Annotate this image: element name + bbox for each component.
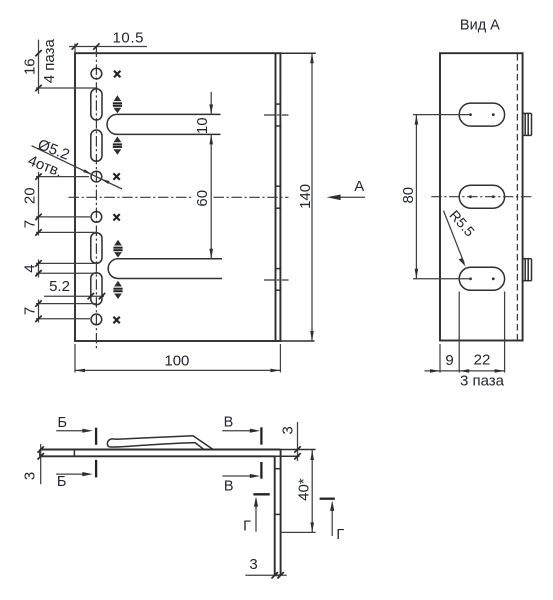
svg-text:Г: Г: [243, 519, 251, 535]
section G-G left mark: [243, 494, 270, 534]
leader R5.5: [444, 207, 479, 267]
centerline middle: [69, 196, 192, 198]
flange slot cut marks row2: [275, 186, 282, 208]
spring symbol above slot A: [113, 95, 122, 113]
side view outline: [440, 53, 523, 340]
svg-text:40*: 40*: [295, 478, 312, 501]
dims 9 and 22 with 3 slots label: [425, 292, 505, 390]
row2 arc centers: [469, 195, 472, 198]
svg-text:80: 80: [400, 187, 417, 204]
dim 3 left (plate thickness): [21, 444, 44, 484]
svg-text:60: 60: [194, 190, 211, 207]
svg-text:Б: Б: [57, 474, 67, 490]
svg-text:А: А: [354, 178, 364, 195]
bottom view plate strip: [40, 450, 281, 457]
svg-text:9: 9: [445, 352, 453, 369]
side slot row1: [459, 103, 504, 126]
row1 arc centers: [469, 113, 472, 116]
side view hidden bend line: [516, 54, 518, 340]
spring symbol below slot A: [113, 137, 122, 155]
dim 100: [75, 344, 280, 372]
section B-B bottom mark: [56, 460, 96, 490]
spring tab profile: [107, 436, 213, 450]
spring symbol below slot B: [113, 281, 122, 299]
flange slot cut marks row1: [275, 104, 282, 126]
row3 arc centers: [469, 277, 472, 280]
svg-text:3: 3: [249, 556, 257, 573]
slot capsule 4: [91, 273, 102, 305]
svg-text:3: 3: [21, 472, 38, 480]
svg-text:5.2: 5.2: [49, 278, 70, 295]
svg-text:Г: Г: [336, 527, 344, 543]
svg-text:22: 22: [474, 351, 491, 368]
wide slot B: [108, 259, 222, 279]
slot capsule 1: [91, 89, 102, 120]
svg-text:В: В: [224, 415, 234, 431]
leg slot rung 2: [275, 513, 281, 515]
section B-B top mark: [56, 415, 96, 445]
svg-text:В: В: [224, 478, 234, 494]
hole 2: [91, 171, 102, 182]
section V-V bottom mark: [222, 462, 261, 494]
svg-text:Б: Б: [57, 415, 67, 431]
svg-text:3: 3: [279, 426, 296, 434]
dim 60: [194, 134, 213, 258]
section G-G right mark: [320, 499, 345, 543]
wide slot A: [107, 114, 220, 134]
hole 4: [91, 314, 102, 325]
leader dia 5.2 4 holes: [26, 136, 122, 189]
svg-text:16: 16: [22, 58, 39, 75]
svg-text:10: 10: [194, 117, 211, 134]
dim 10.5: [69, 30, 147, 54]
centerline row3: [264, 279, 289, 281]
dim 5.2: [44, 278, 105, 299]
dim 140: [280, 53, 315, 341]
svg-text:10.5: 10.5: [112, 30, 144, 47]
side slot row2: [459, 185, 504, 208]
svg-text:4 паза: 4 паза: [41, 39, 58, 84]
svg-text:3 паза: 3 паза: [460, 373, 505, 390]
dim 20 and 7 (upper): [22, 172, 98, 236]
view A arrow: [327, 178, 365, 200]
weld mark x1: [114, 71, 120, 77]
dim 80: [400, 115, 471, 279]
section V-V top mark: [222, 415, 261, 445]
dim 10: [194, 92, 213, 134]
dim 3 right (plate thickness): [275, 422, 316, 461]
side tab row1: [523, 113, 532, 135]
svg-text:4: 4: [22, 264, 39, 272]
leg slot rung 1: [275, 468, 281, 470]
plate outline (front view): [75, 53, 280, 341]
dim 16 / 4 slots label: [22, 39, 98, 94]
side slot row3: [459, 267, 504, 290]
svg-text:Вид А: Вид А: [460, 18, 500, 34]
dim 4: [22, 260, 98, 278]
row2 centerline: [431, 196, 533, 198]
slot capsule 2: [91, 130, 102, 161]
svg-text:7: 7: [22, 307, 39, 315]
svg-text:100: 100: [164, 353, 189, 370]
side tab row3: [523, 259, 532, 281]
hole 3: [91, 212, 102, 223]
bend line (inner edge of flange): [275, 53, 277, 341]
weld mark x2: [113, 173, 119, 179]
dim 40* (flange length): [281, 450, 316, 532]
spring symbol above slot B: [113, 240, 122, 258]
dim 3 bottom (flange thickness): [245, 556, 286, 579]
svg-text:140: 140: [297, 184, 314, 209]
svg-text:7: 7: [22, 220, 39, 228]
weld mark x4: [113, 317, 119, 323]
svg-text:20: 20: [22, 187, 39, 204]
flange slot cut marks row3: [275, 269, 282, 291]
plate edge mark: [73, 450, 75, 457]
dim 7 (lower): [22, 300, 98, 323]
slot capsule 3: [91, 233, 102, 264]
weld mark x3: [113, 214, 119, 220]
bottom view flange leg: [275, 450, 281, 576]
hole 1: [91, 68, 102, 79]
centerline row1: [264, 114, 289, 116]
hole column centerline: [95, 47, 97, 349]
